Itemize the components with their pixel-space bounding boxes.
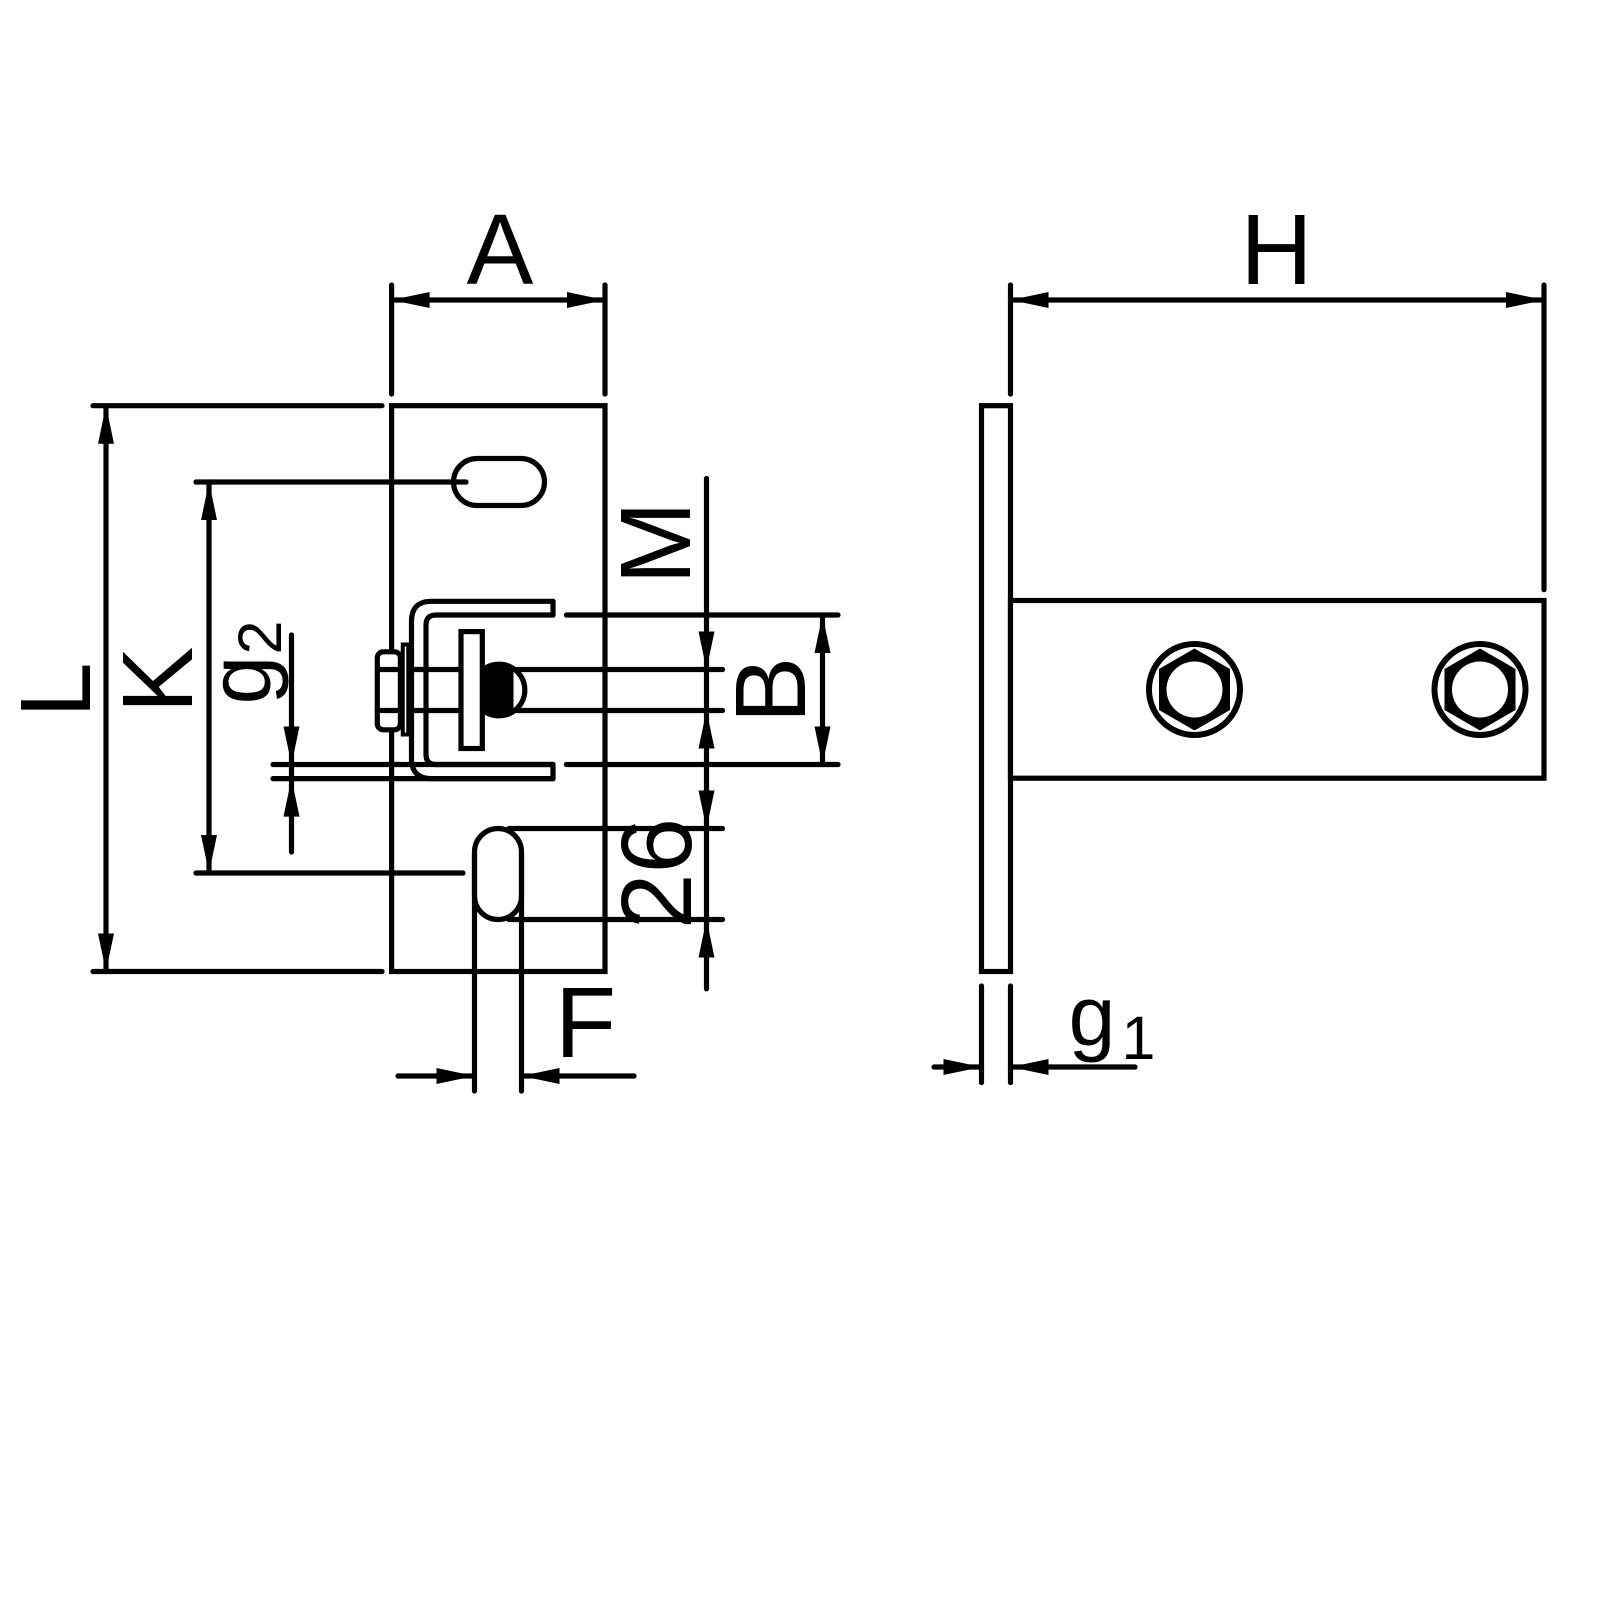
- dimension g2 lower arrowhead: [284, 779, 300, 817]
- dimension g1 left extension line: [979, 986, 984, 1083]
- dimension L bottom arrowhead: [98, 934, 114, 972]
- dimension M lower arrowhead: [699, 711, 715, 749]
- dimension B bottom extension line: [566, 762, 838, 767]
- dimension A left arrowhead: [392, 292, 430, 308]
- svg-text:H: H: [1240, 194, 1312, 306]
- svg-text:F: F: [555, 967, 616, 1079]
- svg-text:M: M: [600, 501, 712, 584]
- bolt shank left lower line: [410, 708, 459, 713]
- dimension 26 lower extension line: [509, 917, 723, 922]
- left hex bolt outer circle: [1149, 644, 1240, 735]
- dimension F left arrowhead: [437, 1068, 475, 1084]
- hex bolt head side view: [377, 652, 400, 730]
- bolt shank left upper line: [410, 667, 459, 672]
- dimension L top arrowhead: [98, 406, 114, 444]
- bolt shank right upper line (M extension): [517, 667, 723, 672]
- dimension H right arrowhead: [1506, 292, 1544, 308]
- dimension H line: [1011, 297, 1545, 302]
- clamp claw top flange end cap: [550, 601, 555, 615]
- dimension 26 upper arrowhead: [699, 791, 715, 829]
- dimension g1 left arrowhead: [944, 1059, 982, 1075]
- mounting plate front view: [392, 406, 605, 972]
- dimension g1 right arrowhead: [1011, 1059, 1049, 1075]
- hex head facet line upper: [377, 667, 400, 672]
- mounting plate side view: [982, 406, 1011, 972]
- bolt domed tip filled segment: [474, 664, 513, 716]
- top slotted hole: [454, 459, 545, 506]
- svg-text:g: g: [190, 656, 289, 705]
- rail lip top line (g2 upper): [273, 762, 553, 767]
- dimension g1 right tail line: [1011, 1064, 1136, 1069]
- svg-text:L: L: [0, 662, 112, 718]
- dimension K top extension line: [196, 479, 466, 484]
- dimension A line: [392, 297, 605, 302]
- left hex bolt bore circle: [1167, 662, 1223, 718]
- dimension B top extension line: [566, 612, 838, 617]
- dimension A left extension line: [389, 285, 394, 394]
- hex head facet line lower: [377, 708, 400, 713]
- right hex bolt outer circle: [1435, 644, 1526, 735]
- rail lip bottom line (g2 lower): [273, 776, 553, 781]
- dimension K bottom extension line: [196, 870, 463, 875]
- dimension H left extension line: [1008, 285, 1013, 394]
- dimension B top arrowhead: [815, 615, 831, 653]
- clamp claw bottom flange end cap: [550, 765, 555, 779]
- dimension L top extension line: [93, 403, 382, 408]
- dimension K bottom arrowhead: [201, 835, 217, 873]
- dimension H left arrowhead: [1011, 292, 1049, 308]
- dimension F right tail line: [522, 1073, 635, 1078]
- dimension L bottom extension line: [93, 969, 382, 974]
- dimension K top arrowhead: [201, 482, 217, 520]
- dimension F right extension line: [519, 854, 524, 1091]
- svg-text:B: B: [715, 657, 827, 724]
- dimension F right arrowhead: [522, 1068, 560, 1084]
- dimension K line: [206, 482, 211, 873]
- dimension F left tail line: [398, 1073, 475, 1078]
- nut strip inside claw: [461, 632, 482, 749]
- dimension A right arrowhead: [567, 292, 605, 308]
- bolt shank right lower line (M extension): [517, 708, 723, 713]
- right hex bolt hexagon: [1445, 649, 1516, 731]
- dimension B bottom arrowhead: [815, 727, 831, 765]
- dimension B line: [820, 615, 825, 765]
- bolt domed tip circle: [473, 664, 525, 716]
- washer: [403, 645, 409, 735]
- dimension A right extension line: [602, 285, 607, 394]
- dimension 26 upper extension line: [509, 826, 723, 831]
- clamp claw inner contour: [426, 615, 553, 765]
- bottom slotted hole: [475, 829, 522, 920]
- dimension L line: [103, 406, 108, 972]
- svg-text:g: g: [1069, 969, 1116, 1063]
- svg-text:1: 1: [1122, 1004, 1156, 1072]
- dimension g2 upper arrowhead: [284, 727, 300, 765]
- right hex bolt bore circle: [1452, 662, 1508, 718]
- dimension 26 lower arrowhead: [699, 920, 715, 958]
- bracket plate side view: [1011, 601, 1545, 779]
- dimension g1 left tail line: [934, 1064, 982, 1069]
- svg-text:A: A: [467, 194, 534, 306]
- dimension g1 right extension line: [1008, 986, 1013, 1083]
- dimension M upper arrowhead: [699, 632, 715, 670]
- dimension F left extension line: [472, 854, 477, 1091]
- clamp claw outer contour: [412, 601, 554, 778]
- left hex bolt hexagon: [1159, 649, 1230, 731]
- dimension g2 line: [289, 635, 294, 852]
- dimension M and 26 shared line: [704, 479, 709, 989]
- svg-text:26: 26: [601, 818, 713, 929]
- svg-text:2: 2: [226, 621, 294, 655]
- dimension H right extension line: [1541, 285, 1546, 590]
